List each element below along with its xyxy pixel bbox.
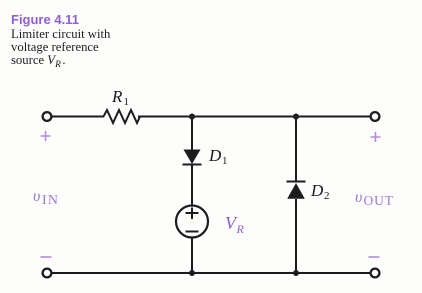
diode D2 cathode bar <box>287 181 306 183</box>
source VR minus sign <box>186 231 199 233</box>
svg-text:D: D <box>208 146 222 165</box>
svg-text:υ: υ <box>355 189 362 206</box>
polarity plus (output) <box>371 132 381 142</box>
terminal: output + (top-right) <box>371 112 380 121</box>
voltage source VR circle <box>176 206 208 238</box>
junction node B (top, D2 branch) <box>293 114 299 120</box>
source VR plus sign <box>186 208 199 220</box>
terminal: input + (top-left) <box>43 112 52 121</box>
wire: bottom rail <box>53 272 370 274</box>
svg-text:2: 2 <box>324 190 330 202</box>
polarity minus (output) <box>369 256 380 258</box>
svg-text:R: R <box>236 222 245 236</box>
polarity minus (input) <box>41 256 52 258</box>
terminal: output - (bottom-right) <box>371 269 380 278</box>
svg-text:OUT: OUT <box>364 193 394 208</box>
wire: node A down to diode D1 <box>191 117 193 151</box>
svg-text:1: 1 <box>222 155 228 167</box>
terminal: input - (bottom-left) <box>43 269 52 278</box>
junction node C (bottom, D1 branch) <box>189 270 195 276</box>
wire: diode D1 to source VR <box>191 165 193 206</box>
wire: source VR to bottom node <box>191 238 193 273</box>
resistor R1 <box>104 110 141 123</box>
diode D1 cathode bar <box>183 164 202 166</box>
polarity plus (input) <box>41 131 51 141</box>
svg-text:R: R <box>111 87 123 106</box>
svg-text:IN: IN <box>42 193 59 208</box>
wire: resistor R1 to top-right terminal <box>138 116 370 118</box>
svg-text:1: 1 <box>124 96 130 108</box>
junction node A (top, D1 branch) <box>189 114 195 120</box>
wire: top-left terminal to resistor R1 <box>53 116 105 118</box>
diode D1 triangle <box>184 150 201 165</box>
svg-text:D: D <box>310 181 324 200</box>
wire: node B down to diode D2 <box>295 117 297 183</box>
figure caption <box>11 9 110 69</box>
wire: diode D2 to bottom node <box>295 199 297 273</box>
diode D2 triangle <box>287 183 305 199</box>
svg-text:υ: υ <box>33 188 40 205</box>
junction node D (bottom, D2 branch) <box>293 270 299 276</box>
